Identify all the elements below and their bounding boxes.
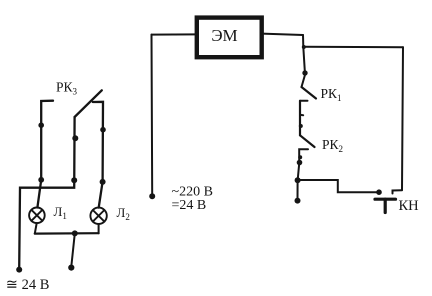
small blob below PK2 hook — [298, 155, 302, 159]
left supply terminal dot — [149, 193, 155, 199]
svg-text:РК3: РК3 — [56, 79, 78, 96]
svg-text:Л1: Л1 — [54, 204, 67, 221]
wire: PK3 right terminal hook down to lamp 2 — [93, 102, 103, 208]
dot on right vertical lower — [100, 179, 106, 185]
contact PK1 lower hook — [300, 100, 308, 102]
svg-text:РК2: РК2 — [322, 137, 343, 154]
wire: left vertical with top stub, down to lamp 1 — [37, 101, 53, 208]
lamp Л1 — [29, 208, 45, 224]
button left contact dot — [376, 189, 382, 195]
dot on left vertical lower — [38, 177, 44, 183]
button КН stem — [384, 199, 387, 212]
wire: box right to corner — [262, 34, 303, 35]
wire: corner step down — [302, 35, 304, 47]
wire: right end into button contact — [393, 190, 403, 193]
junction dot — [295, 177, 301, 183]
right supply terminal dot — [295, 198, 301, 204]
svg-text:=24 В: =24 В — [172, 198, 207, 213]
wire: middle vertical, left run and drop to bottom-left terminal — [19, 117, 74, 269]
wire: lamp2 bottom to bottom rail — [98, 224, 100, 233]
junction blob at T — [302, 45, 306, 49]
wire: junction to button, with step — [298, 180, 378, 192]
wire: left supply vertical — [151, 35, 154, 196]
junction dot top of PK1 — [302, 70, 307, 75]
wire: PK1 to PK2 — [299, 101, 301, 136]
dot on middle vertical upper — [72, 135, 78, 141]
contact PK1 upper terminal — [302, 76, 305, 88]
dot on right vertical upper — [100, 127, 106, 133]
small blob on wire — [299, 124, 303, 128]
small tick on wire — [300, 114, 303, 116]
svg-text:~220 В: ~220 В — [172, 184, 213, 199]
contact PK2 blade — [300, 135, 315, 147]
wire: junction down to right supply terminal — [297, 180, 299, 199]
contact PK1 blade — [302, 87, 317, 99]
wire: right outer vertical — [402, 47, 403, 190]
wire: lamp1 bottom to bottom rail — [35, 223, 37, 234]
wire: down to PK1 — [303, 47, 305, 71]
lamp Л2 — [90, 208, 106, 224]
svg-text:Л2: Л2 — [117, 205, 130, 222]
wire: top horizontal to right side — [303, 46, 403, 48]
dot on left vertical upper — [38, 122, 44, 128]
wire: box left to supply corner — [152, 33, 197, 35]
svg-text:ЭМ: ЭМ — [211, 26, 237, 45]
wire: to junction — [298, 163, 300, 180]
button КН bar — [375, 198, 396, 201]
contact PK2 lower hook — [299, 149, 308, 161]
junction dot on bottom rail — [72, 230, 78, 236]
dot below PK2 — [297, 160, 303, 166]
electromagnet box ЭМ — [197, 18, 262, 58]
dot on middle vertical lower — [71, 177, 77, 183]
contact PK3 blade — [75, 90, 102, 117]
svg-text:≅ 24 В: ≅ 24 В — [6, 277, 50, 293]
bottom mid terminal dot — [68, 265, 74, 271]
wire: junction down to mid bottom terminal — [71, 233, 75, 266]
svg-text:РК1: РК1 — [321, 86, 342, 103]
bottom rail between lamps — [35, 232, 99, 235]
svg-text:КН: КН — [399, 198, 420, 214]
bottom-left terminal dot — [16, 267, 22, 273]
